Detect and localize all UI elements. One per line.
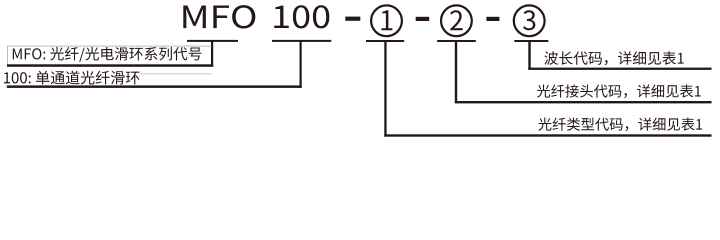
dash 3 <box>486 17 499 21</box>
underline under 100 <box>272 40 331 42</box>
title text "100" <box>274 5 329 28</box>
box: MFO series label, faint top edge <box>7 46 212 47</box>
title text "MFO" <box>183 5 255 28</box>
wire: vertical drop from circle 2 to connector row <box>455 40 457 103</box>
box: single-channel label, bottom edge / connector to 100 <box>7 85 302 88</box>
label text "100: single channel fiber slip ring" <box>4 71 139 85</box>
label text "fiber type code, see table 1" <box>538 118 702 132</box>
underline under MFO <box>187 40 238 42</box>
wire: vertical drop from circle 3 to wavelength row <box>528 40 530 70</box>
label text "wavelength code, see table 1" <box>544 51 683 65</box>
dash 1 <box>345 17 360 21</box>
underline under circle 2 <box>437 40 476 42</box>
underline under circle 3 <box>514 40 548 42</box>
digit 3 in circle <box>523 10 535 30</box>
circled number 2 <box>441 5 472 36</box>
wire: vertical drop from MFO underline to box 1 <box>211 40 213 67</box>
digit 2 in circle <box>450 10 462 30</box>
row: wavelength code, bottom edge <box>528 68 711 70</box>
underline under circle 1 <box>366 40 404 42</box>
box: MFO series label, faint lower edge <box>141 73 212 74</box>
label text "fiber connector code, see table 1" <box>537 84 701 98</box>
label text "MFO: fiber/opto-electric slip ring series code" <box>13 47 202 62</box>
box: MFO series label, faint left edge <box>7 46 8 65</box>
circled number 3 <box>514 5 545 36</box>
box: MFO series label, bottom edge <box>7 64 213 67</box>
row: fiber type code, bottom edge <box>384 134 711 136</box>
digit 1 in circle <box>381 10 392 30</box>
dash 2 <box>416 17 430 21</box>
circled number 1 <box>371 5 402 36</box>
wire: vertical drop from circle 1 to fiber-type row <box>384 40 386 137</box>
wire: vertical drop from 100 underline to box 2 <box>300 40 302 88</box>
row: fiber connector code, bottom edge <box>455 101 712 103</box>
